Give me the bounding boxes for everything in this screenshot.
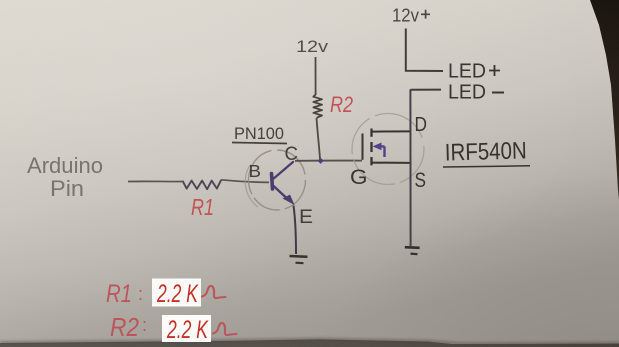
mosfet Q2 source lead <box>372 162 410 164</box>
mosfet Q2 body arrow (purple) <box>379 146 385 157</box>
svg-text:12v: 12v <box>296 37 329 56</box>
value label R1 ohm (red handwriting) <box>202 286 226 298</box>
wire: emitter to ground <box>294 206 297 255</box>
svg-text::: : <box>142 315 147 335</box>
svg-text:2.2 K: 2.2 K <box>166 316 209 344</box>
transistor Q1 collector stroke <box>273 162 294 180</box>
junction node dot <box>318 158 324 164</box>
svg-text:E: E <box>299 206 313 228</box>
transistor Q1 emitter stroke with arrow <box>273 186 286 198</box>
wire: collector to gate (node) <box>295 160 362 162</box>
mosfet Q2 envelope circle <box>352 114 424 185</box>
svg-text:R2: R2 <box>330 92 353 117</box>
ground (emitter) <box>290 255 308 258</box>
svg-text:PN100: PN100 <box>234 124 284 143</box>
transistor Q1 base bar <box>272 174 273 190</box>
resistor R2 <box>313 95 322 118</box>
svg-text:LED: LED <box>448 82 486 104</box>
wire: drain/source vertical line <box>409 90 411 247</box>
value box R1 2.2K <box>152 279 201 307</box>
svg-text:G: G <box>350 166 368 189</box>
wire: Arduino pin to R1 <box>128 180 184 182</box>
svg-text:LED: LED <box>448 61 486 83</box>
svg-text::: : <box>138 284 143 304</box>
value box R2 2.2K <box>162 315 211 342</box>
mosfet Q2 channel segments <box>370 129 372 137</box>
mosfet Q2 gate bar <box>361 134 363 160</box>
resistor R1 <box>183 180 221 189</box>
svg-text:Arduino: Arduino <box>27 153 103 178</box>
svg-text:12v: 12v <box>392 6 419 26</box>
svg-text:R2: R2 <box>110 312 139 342</box>
svg-text:D: D <box>415 114 428 136</box>
svg-text:Pin: Pin <box>50 176 84 201</box>
svg-text:B: B <box>249 161 262 181</box>
transistor Q1 PN100 envelope circle <box>249 150 306 210</box>
svg-text:S: S <box>415 168 427 192</box>
svg-text:R1: R1 <box>191 194 214 220</box>
value label R2 ohm (red handwriting) <box>213 323 237 335</box>
svg-text:R1: R1 <box>106 280 132 308</box>
mosfet Q2 drain lead <box>372 130 410 132</box>
svg-text:2.2 K: 2.2 K <box>156 280 199 308</box>
wire: 12v+ down and right to LED+ <box>406 29 443 72</box>
svg-text:IRF540N: IRF540N <box>444 137 527 166</box>
wire: R2 to junction <box>317 118 321 159</box>
wire: 12v down to R2 <box>315 57 317 95</box>
wire: R1 to transistor base <box>221 180 269 183</box>
ground (source) <box>405 246 420 249</box>
wire: LED- to drain <box>410 89 441 91</box>
node: Arduino Pin label <box>27 153 103 201</box>
